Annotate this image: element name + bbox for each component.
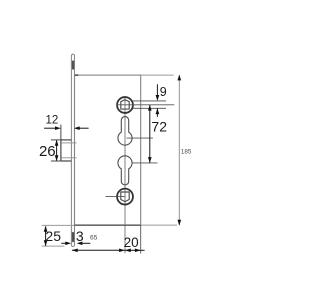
svg-text:185: 185 xyxy=(181,149,192,156)
svg-text:72: 72 xyxy=(151,118,167,134)
svg-text:65: 65 xyxy=(90,235,98,242)
svg-text:25: 25 xyxy=(45,228,61,244)
svg-text:20: 20 xyxy=(124,235,139,250)
svg-text:12: 12 xyxy=(46,114,59,126)
svg-text:26: 26 xyxy=(39,143,56,160)
svg-text:3: 3 xyxy=(76,228,84,244)
svg-text:9: 9 xyxy=(160,85,167,99)
